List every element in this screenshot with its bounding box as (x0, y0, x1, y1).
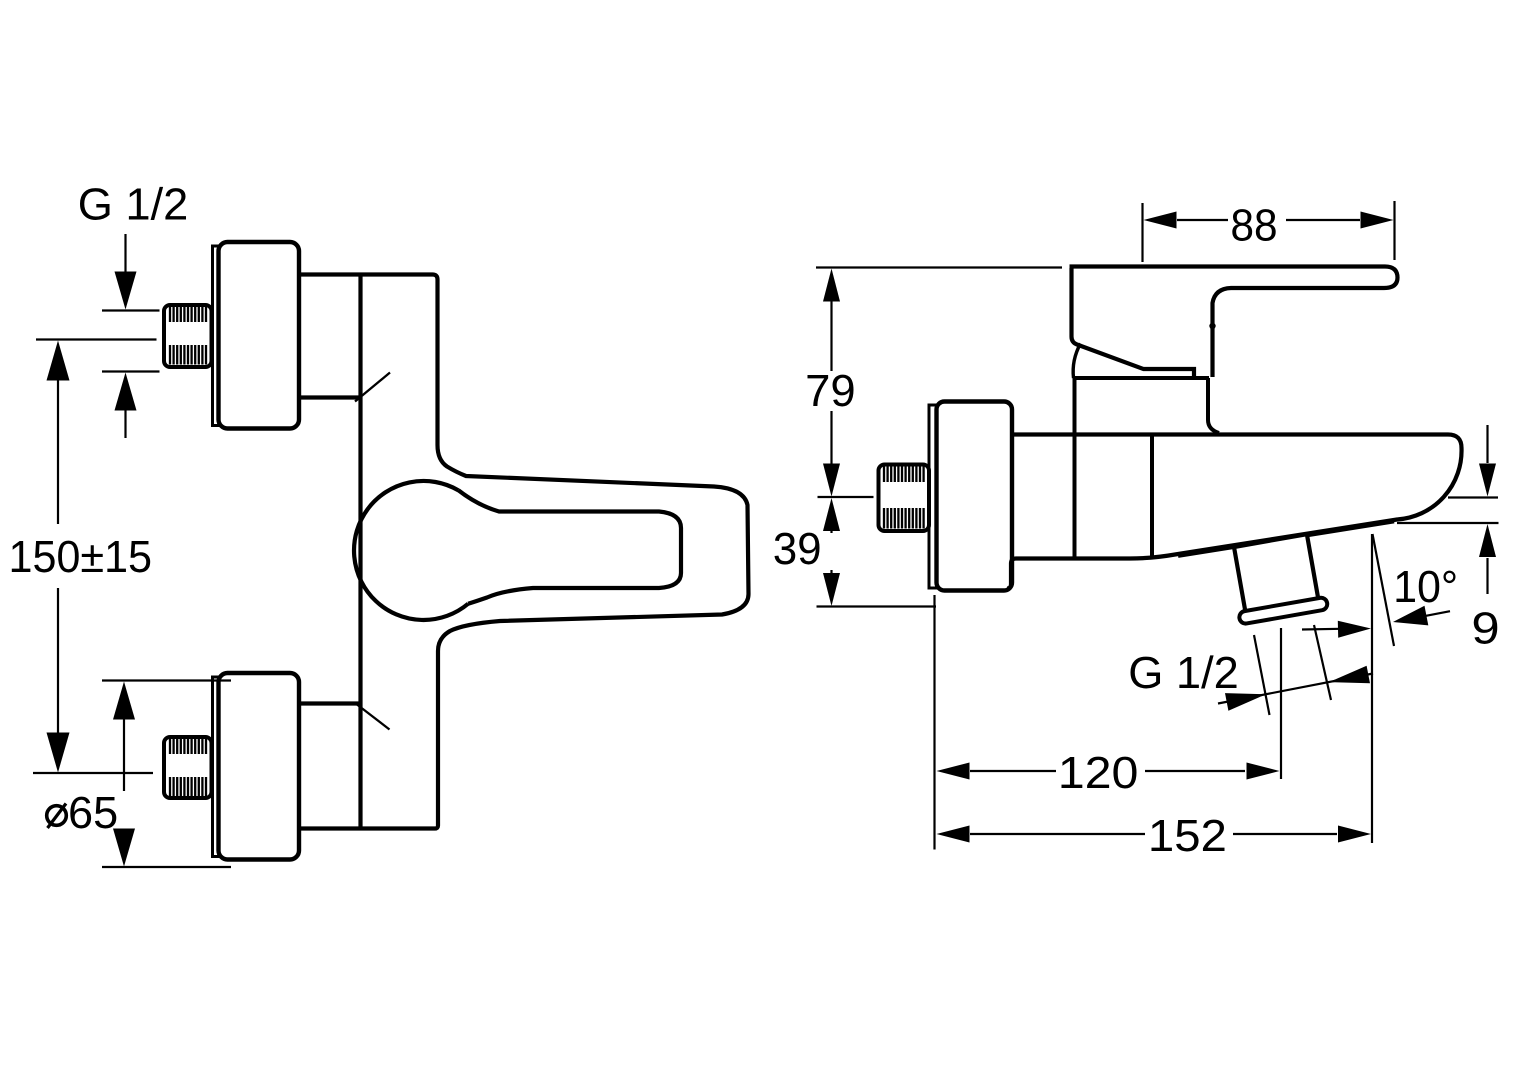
10° tilted line (1373, 534, 1395, 646)
ø65 arrow up (113, 682, 135, 720)
G 1/2 dimension line (1218, 674, 1373, 704)
150±15 dimension line upper (47, 341, 70, 381)
G 1/2 ref line lower (102, 370, 160, 372)
ref line bottom (outlet) (817, 605, 937, 607)
88 ext line left (1141, 203, 1143, 262)
9 ref line upper (1448, 496, 1498, 498)
G 1/2 arrow up (115, 373, 137, 411)
wall ext line (933, 595, 935, 850)
150 ref line bottom (33, 772, 153, 774)
body joint line right (1150, 435, 1154, 559)
G 1/2 thread ext line right (1314, 625, 1331, 700)
label 9 (1474, 612, 1497, 644)
cap top edge (1073, 376, 1209, 380)
label 10° (1396, 571, 1414, 602)
handle pin dot (1209, 323, 1215, 329)
88 dimension line (1144, 212, 1177, 229)
spout underside emphasis (1178, 521, 1394, 556)
side view: threaded rod (879, 465, 930, 532)
spout vertical ref line (1371, 534, 1373, 843)
outlet axis ext line (1280, 628, 1282, 779)
wall fitting bottom: flange (219, 673, 300, 860)
wall fitting top: threaded rod (164, 305, 212, 367)
chamfer tick top (355, 373, 390, 402)
bottom neck top line (299, 701, 361, 705)
label G 1/2 (top left) (80, 188, 110, 220)
152 dimension line (937, 826, 970, 843)
9 arrow down (1486, 425, 1488, 463)
G 1/2 ref line upper (102, 309, 160, 311)
label 79 (807, 375, 828, 406)
handle pivot circle (front view) (354, 481, 468, 620)
ø65 arrow down (123, 838, 125, 840)
150 ref line top (36, 338, 157, 340)
side view: flange (937, 402, 1013, 591)
79 dimension (823, 269, 840, 302)
ø65 ref line bottom (102, 866, 231, 868)
handle lever blade (side view) (1070, 267, 1398, 378)
body joint line left (1073, 378, 1077, 559)
ref line top (79) (816, 266, 1062, 268)
9 ref line lower (1397, 522, 1499, 524)
wall fitting bottom: threaded rod (164, 737, 212, 798)
cartridge column right edge (1208, 378, 1219, 433)
9 arrow up (1479, 524, 1496, 557)
G 1/2 thread ext line left (1254, 635, 1270, 715)
handle inner slot (458, 490, 681, 604)
88 ext line right (1393, 201, 1395, 260)
wall fitting bottom: flange back strip (213, 677, 221, 857)
chamfer tick bottom (357, 705, 390, 730)
side view: flange back strip (929, 405, 938, 588)
10° arrow right side (1393, 606, 1428, 626)
ref line middle (inlet axis) (818, 496, 874, 498)
39 dimension (823, 498, 840, 531)
150±15 dimension line lower (57, 588, 59, 740)
label G 1/2 (right view) (1131, 657, 1161, 689)
diverter outlet pipe (tilted 10°) (1227, 533, 1328, 625)
label 150±15 (12, 541, 31, 572)
wall fitting top: flange back strip (213, 246, 221, 426)
label 39 (774, 533, 795, 565)
top neck bottom line (299, 395, 361, 399)
G 1/2 arrow down (124, 234, 126, 282)
10° arrow left side (1302, 628, 1340, 631)
120 dimension line (937, 763, 970, 780)
side view: body and spout outline (1007, 435, 1462, 589)
faucet body outline with handle (front view) (299, 275, 749, 829)
body left edge (358, 275, 362, 829)
cap rear curve (1073, 344, 1080, 379)
handle wedge (side view) (1072, 268, 1195, 378)
ø65 ref line top (102, 679, 231, 681)
wall fitting top: flange (219, 242, 300, 429)
label ø65 (47, 806, 67, 826)
